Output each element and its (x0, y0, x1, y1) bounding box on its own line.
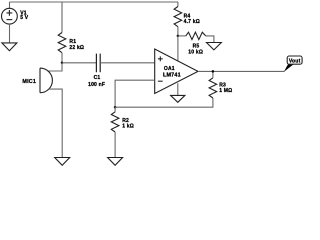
svg-text:MIC1: MIC1 (22, 79, 36, 85)
junction: output node (output / R3) (212, 70, 215, 73)
resistor R5 10 kOhm (186, 32, 206, 55)
wire: R2 to ground (114, 132, 116, 158)
resistor R4 4.7 kOhm (174, 7, 200, 27)
junction: node A (R1 / C1 / MIC1) (61, 62, 64, 65)
wire: op-amp negative supply pin to ground (177, 83, 179, 95)
ground: below R2 (108, 158, 123, 166)
svg-text:LM741: LM741 (163, 72, 181, 78)
svg-text:100 nF: 100 nF (88, 82, 105, 88)
ground: below R5 (207, 43, 222, 50)
svg-text:1 MΩ: 1 MΩ (219, 88, 232, 94)
wire: R3 top to output node (212, 71, 214, 77)
capacitor C1 100 nF (88, 54, 105, 88)
microphone MIC1 (22, 68, 52, 93)
wire: V+ node down to op-amp positive supply pin (177, 36, 179, 61)
net flag Vout (284, 56, 302, 72)
resistor R2 1 kOhm (111, 112, 134, 132)
svg-text:1 kΩ: 1 kΩ (122, 123, 134, 129)
wire: C1 to op-amp noninverting input (100, 62, 155, 64)
svg-text:Vout: Vout (289, 58, 301, 64)
junction: V+ node (R4 / R5 / op-amp V+) (177, 35, 180, 38)
wire: MIC1 bottom terminal to ground (49, 89, 62, 157)
wire: node A down and left to MIC1 top terminal (48, 63, 62, 71)
wire: op-amp output to Vout (198, 70, 285, 72)
wire: feedback node right and up to R3 (115, 98, 213, 107)
svg-text:22 kΩ: 22 kΩ (69, 45, 84, 51)
wire: top rail down to R1 (61, 2, 63, 33)
wire: V+ node to R5 (178, 35, 186, 37)
resistor R1 22 kOhm (58, 33, 84, 53)
wire: R4 to V+ node (177, 27, 179, 36)
wire: V1 positive terminal to top rail (9, 2, 11, 8)
wire: top supply rail (10, 1, 179, 3)
resistor R3 1 MOhm (209, 78, 232, 98)
wire: top rail down to R4 (177, 2, 179, 7)
wire: V1 negative terminal to ground (9, 24, 11, 43)
ground: below MIC1 (55, 158, 70, 166)
wire: R1 to node A (61, 53, 63, 63)
wire: op-amp inverting input to feedback node (115, 80, 155, 107)
wire: R5 to ground (206, 36, 214, 43)
svg-text:10 kΩ: 10 kΩ (188, 50, 203, 56)
op-amp OA1 LM741 (155, 49, 198, 94)
wire: node A to C1 (62, 62, 96, 64)
svg-text:4.7 kΩ: 4.7 kΩ (184, 19, 200, 25)
ground: below op-amp (171, 95, 185, 102)
svg-text:OA1: OA1 (164, 66, 175, 72)
svg-text:C1: C1 (94, 75, 101, 81)
svg-text:5 V: 5 V (20, 15, 29, 21)
voltage source V1 (1, 8, 17, 24)
junction: feedback node (R2 / R3) (114, 106, 117, 109)
ground: below V1 (2, 43, 17, 51)
wire: feedback node to R2 (114, 107, 116, 112)
